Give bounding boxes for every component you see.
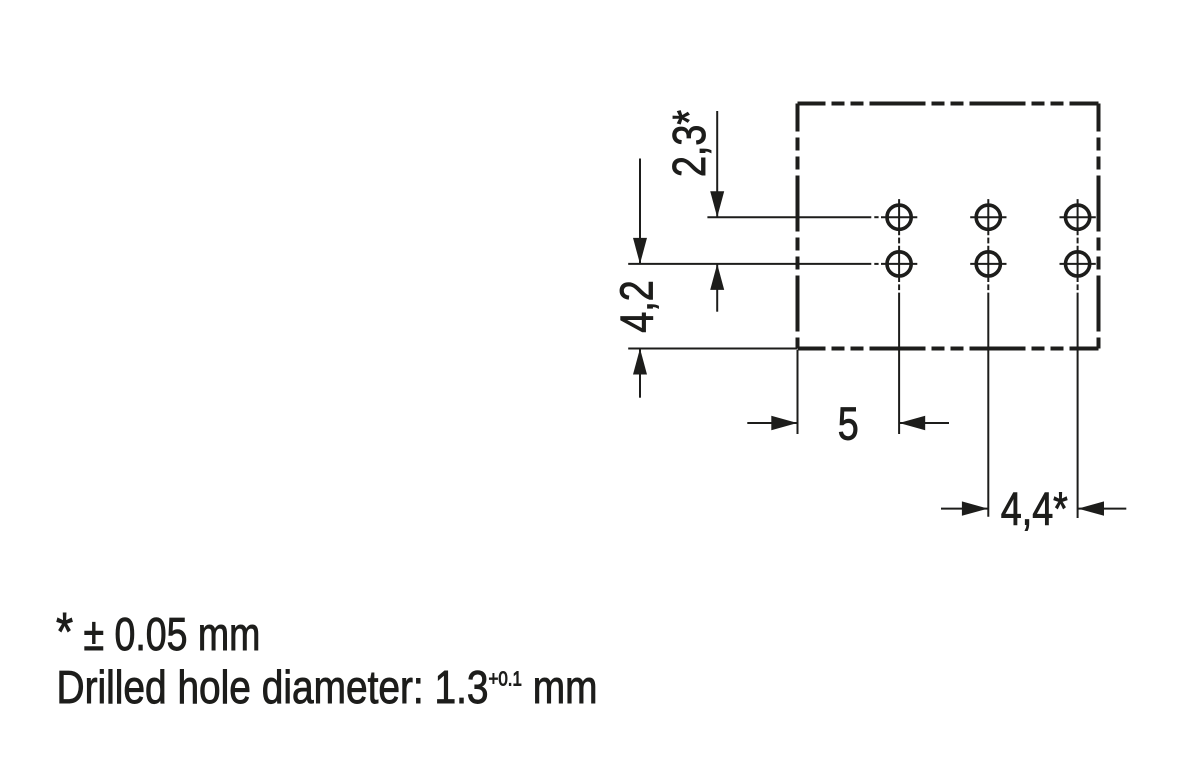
svg-text:2,3*: 2,3* <box>663 110 714 177</box>
svg-text:5: 5 <box>838 398 859 449</box>
svg-text:4,4*: 4,4* <box>1001 483 1068 534</box>
svg-text:4,2: 4,2 <box>611 280 662 332</box>
svg-text:* ± 0.05 mm: * ± 0.05 mm <box>56 602 260 662</box>
